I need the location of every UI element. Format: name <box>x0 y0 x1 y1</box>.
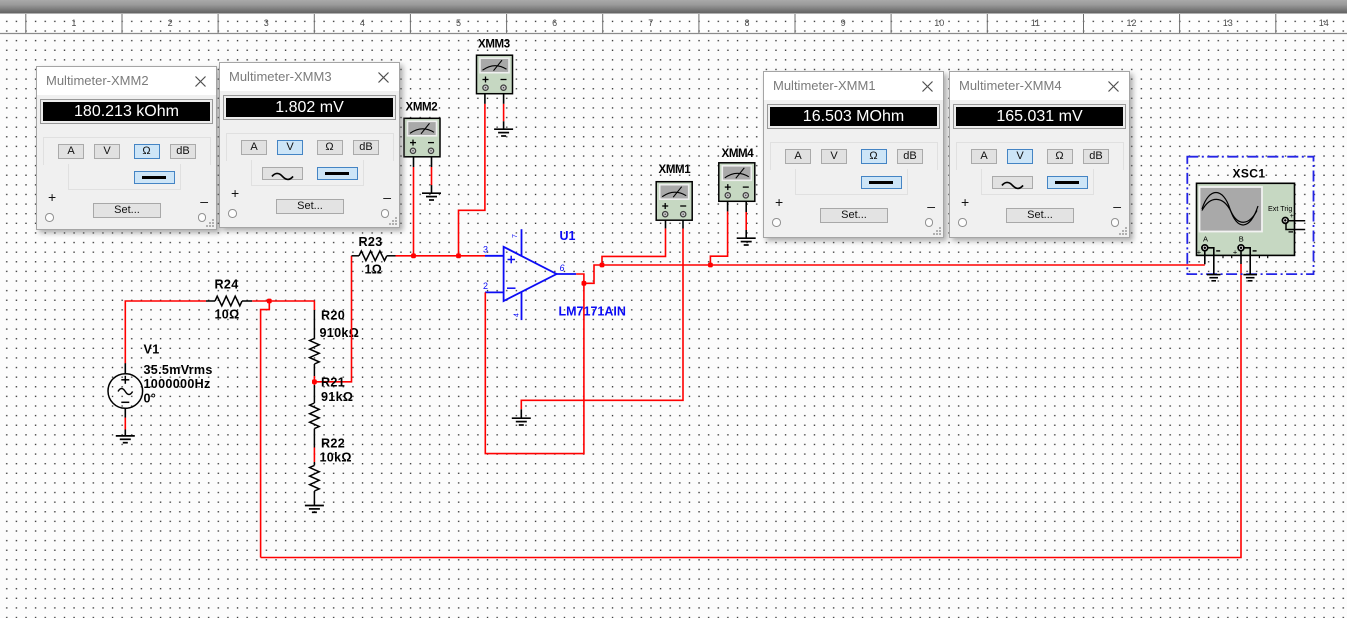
svg-text:7: 7 <box>648 18 653 28</box>
ground below XMM4 <box>737 238 756 245</box>
svg-text:5: 5 <box>456 18 461 28</box>
svg-text:Ext Trig: Ext Trig <box>1268 204 1292 213</box>
resistor R20 body <box>310 338 320 364</box>
voltage source V1 (AC) <box>108 363 143 418</box>
svg-text:12: 12 <box>1126 18 1136 28</box>
ground below XMM2 <box>422 193 441 200</box>
XMM2 minus terminal <box>200 193 208 209</box>
svg-text:910kΩ: 910kΩ <box>320 326 360 340</box>
ground below XMM3 <box>494 129 513 136</box>
svg-text:+: + <box>1290 213 1294 220</box>
R22 value label 10kΩ <box>320 451 352 465</box>
pin number 4 <box>514 313 521 317</box>
XSC1 ext trig terminal <box>1282 218 1288 224</box>
XSC1 Ext Trig text <box>1268 204 1292 213</box>
svg-text:XSC1: XSC1 <box>1233 167 1266 181</box>
XMM2 signal mode buttons <box>134 171 175 185</box>
XSC1 channel A terminal <box>1202 245 1208 251</box>
XMM3 plus terminal <box>231 185 239 201</box>
wire XMM4 minus lead to ground <box>745 201 747 238</box>
ground below XSC1 B minus <box>1243 275 1257 281</box>
wire V1 minus to ground (red segment) <box>124 418 126 430</box>
op-amp plus input marker <box>508 256 516 264</box>
junction node output feedback tap <box>582 281 587 286</box>
XSC1 screen waveform trace B <box>1202 199 1257 222</box>
XMM1 plus terminal <box>775 194 783 210</box>
wire XMM3 plus lead down to input net <box>459 94 485 256</box>
svg-text:1000000Hz: 1000000Hz <box>144 377 211 391</box>
svg-text:2: 2 <box>483 281 488 291</box>
XMM1 instrument icon <box>656 182 692 221</box>
R21 reference label <box>321 376 345 390</box>
svg-text:10: 10 <box>934 18 944 28</box>
XMM3 title bar <box>220 63 399 91</box>
R23 reference label <box>359 235 383 249</box>
XMM2 reading display: 180.213 kOhm <box>41 100 212 123</box>
svg-text:35.5mVrms: 35.5mVrms <box>144 363 213 377</box>
pin number 3 <box>483 245 488 255</box>
XSC1 label <box>1233 167 1266 181</box>
svg-text:10kΩ: 10kΩ <box>320 451 352 465</box>
svg-text:XMM1: XMM1 <box>659 164 692 176</box>
XMM1 reading display: 16.503 MOhm <box>768 105 939 128</box>
svg-text:R23: R23 <box>359 235 383 249</box>
op-amp minus input marker <box>507 287 516 289</box>
XSC1 screen waveform trace A <box>1202 193 1258 225</box>
multimeter panel XMM4 window <box>949 71 1130 238</box>
junction node XMM1 tap <box>600 263 605 268</box>
svg-text:R21: R21 <box>321 376 345 390</box>
junction node XMM3 probe <box>456 253 461 258</box>
pin number 7 <box>512 234 519 238</box>
pin number 6 <box>560 263 565 273</box>
XMM1 minus terminal <box>927 198 935 214</box>
svg-text:7: 7 <box>512 234 519 238</box>
XSC1 B minus bracket lead to ground <box>1244 248 1250 275</box>
resistor R23 leads <box>352 255 396 257</box>
svg-text:10Ω: 10Ω <box>215 308 240 322</box>
XMM4 mode buttons A V Ohm dB <box>971 149 997 164</box>
ground below R22 <box>305 506 324 513</box>
junction node XMM2 probe <box>411 253 416 258</box>
XMM1 plus terminal lead (black) <box>665 220 667 229</box>
XSC1 channel B minus mark <box>1253 250 1257 252</box>
XMM3 icon label <box>478 39 510 51</box>
svg-text:4: 4 <box>514 313 521 317</box>
svg-text:1: 1 <box>71 18 76 28</box>
svg-text:14: 14 <box>1319 18 1329 28</box>
XSC1 A minus bracket lead to ground <box>1208 248 1214 275</box>
R21 value label 91kΩ <box>321 390 353 404</box>
wire XMM2 plus lead down to input net <box>413 157 415 256</box>
XMM4 Set button <box>1006 208 1074 223</box>
wire junction down to bottom feedback rail <box>261 301 270 558</box>
XMM3 mode buttons A V Ohm dB <box>241 140 267 155</box>
op-amp U1 input pin 2 lead <box>485 291 504 293</box>
ruler strip <box>0 14 1347 34</box>
U1 reference label <box>560 229 576 243</box>
op-amp U1 power pin 7 (top) <box>521 229 523 256</box>
XSC1 selection box (dashed blue) <box>1187 157 1313 274</box>
XMM4 instrument icon <box>719 163 755 202</box>
XSC1 ext trig pin stubs <box>1286 221 1305 230</box>
bottom feedback rail wire to XSC1 channel B <box>261 264 1241 558</box>
wire into R20 (red) <box>313 301 315 310</box>
op-amp U1 power pin 4 (bottom) <box>521 292 523 320</box>
XSC1 screen <box>1200 187 1263 232</box>
svg-text:R20: R20 <box>321 309 345 323</box>
XMM3 Set button <box>276 199 344 214</box>
XMM4 minus terminal <box>1113 198 1121 214</box>
svg-text:LM7171AIN: LM7171AIN <box>559 305 626 319</box>
wire R23 to op-amp pin 3 <box>396 255 486 257</box>
wire op-amp output elbow down <box>576 274 584 283</box>
op-amp U1 output pin 6 lead <box>557 273 577 275</box>
wire R21 junction right and up to R23 <box>314 256 351 382</box>
svg-text:+: + <box>1233 247 1238 256</box>
XMM2 mode buttons A V Ohm dB <box>58 144 84 159</box>
wire output junction to main output net <box>584 265 1205 283</box>
resistor R20 leads <box>313 310 315 376</box>
wire stub up to XMM4 plus terminal <box>710 211 727 265</box>
XMM2 instrument icon <box>404 118 440 157</box>
XSC1 channel B terminal <box>1238 245 1244 251</box>
XSC1 ext trig plus mark <box>1290 213 1294 220</box>
svg-text:+: + <box>1197 247 1202 256</box>
op-amp U1 triangle <box>504 247 557 301</box>
XMM4 plus terminal <box>961 194 969 210</box>
wire stub up to XMM1 plus terminal <box>602 228 666 265</box>
resistor R24 leads <box>206 300 252 302</box>
svg-text:4: 4 <box>360 18 365 28</box>
op-amp U1 input pin 3 lead <box>485 255 504 257</box>
XSC1 channel A minus mark <box>1216 250 1220 252</box>
wire R24 to R20 top corner <box>252 300 314 302</box>
XMM2 title bar <box>37 67 216 95</box>
XMM1 icon label <box>659 164 692 176</box>
XMM3 minus terminal <box>383 189 391 205</box>
wire XMM2 minus lead to ground <box>431 157 433 193</box>
XMM1 title bar <box>764 72 943 100</box>
resistor R23 body <box>359 251 387 261</box>
svg-text:XMM2: XMM2 <box>406 102 438 114</box>
svg-text:3: 3 <box>264 18 269 28</box>
svg-text:13: 13 <box>1223 18 1233 28</box>
wire output node down-left feedback loop to pin 2 <box>485 283 584 453</box>
resistor R24 body <box>215 296 242 306</box>
svg-text:R24: R24 <box>215 278 239 292</box>
wire XMM3 minus lead to ground <box>503 94 505 129</box>
multimeter panel XMM1 window <box>763 71 944 238</box>
junction node XMM4 tap <box>708 263 713 268</box>
XSC1 channel A label <box>1203 235 1208 244</box>
XSC1 channel B plus mark <box>1233 247 1238 256</box>
XMM3 reading display: 1.802 mV <box>224 96 395 119</box>
svg-text:R22: R22 <box>321 437 345 451</box>
junction node R21 top <box>312 379 317 384</box>
svg-text:2: 2 <box>168 18 173 28</box>
svg-text:A: A <box>1203 235 1208 244</box>
R20 reference label <box>321 309 345 323</box>
svg-text:B: B <box>1239 235 1244 244</box>
XSC1 body bottom pin ticks <box>1223 255 1268 258</box>
XSC1 A plus lead (black) down to output net <box>1204 251 1206 264</box>
svg-text:6: 6 <box>560 263 565 273</box>
wire V1 plus up to R24 level <box>125 301 206 363</box>
resistor R21 body <box>310 403 320 429</box>
wire R21 to R22 (red) <box>313 448 315 463</box>
XMM2 icon label <box>406 102 438 114</box>
XMM1 minus terminal lead (black) <box>682 220 684 229</box>
svg-text:6: 6 <box>552 18 557 28</box>
svg-text:XMM3: XMM3 <box>478 39 510 51</box>
svg-text:9: 9 <box>841 18 846 28</box>
multimeter panel XMM2 window <box>36 66 217 230</box>
R24 value label 10Ω <box>215 308 240 322</box>
XMM3 signal mode buttons <box>262 167 303 181</box>
XSC1 channel B label <box>1239 235 1244 244</box>
XMM1 Set button <box>820 208 888 223</box>
XMM4 reading display: 165.031 mV <box>954 105 1125 128</box>
pin number 2 <box>483 281 488 291</box>
wire R20 to R21 (red) <box>313 376 315 385</box>
XSC1 ext trig minus mark <box>1289 231 1294 233</box>
resistor R21 leads <box>313 385 315 448</box>
XMM2 plus terminal <box>48 189 56 205</box>
R20 value label 910kΩ <box>320 326 360 340</box>
XMM3 instrument icon <box>477 55 513 93</box>
ground below V1 <box>116 430 135 443</box>
XMM1 mode buttons A V Ohm dB <box>785 149 811 164</box>
svg-text:0°: 0° <box>144 391 157 405</box>
oscilloscope XSC1 body <box>1197 183 1295 255</box>
XMM4 plus terminal lead (black) <box>727 202 729 212</box>
ground for XMM1 minus net <box>512 409 531 425</box>
XMM4 icon label <box>722 148 755 160</box>
wire XMM1 minus terminal down to ground net <box>521 229 683 410</box>
XMM2 Set button <box>93 203 161 218</box>
junction node at R24 output <box>267 299 272 304</box>
U1 part label LM7171AIN <box>559 305 626 319</box>
svg-text:8: 8 <box>744 18 749 28</box>
resistor R22 leads <box>313 462 315 505</box>
svg-text:1Ω: 1Ω <box>365 263 383 277</box>
multimeter panel XMM3 window <box>219 62 400 228</box>
svg-text:11: 11 <box>1031 18 1040 28</box>
resistor R22 body <box>310 465 320 491</box>
XMM4 signal mode buttons <box>992 176 1033 190</box>
V1 labels (V1 / 35.5mVrms / 1000000Hz / 0°) <box>144 343 213 406</box>
XSC1 channel A plus mark <box>1197 247 1202 256</box>
svg-text:XMM4: XMM4 <box>722 148 755 160</box>
ground below XSC1 A minus <box>1207 275 1221 281</box>
R22 reference label <box>321 437 345 451</box>
R24 reference label <box>215 278 239 292</box>
svg-text:U1: U1 <box>560 229 576 243</box>
svg-text:V1: V1 <box>144 343 160 357</box>
svg-text:3: 3 <box>483 245 488 255</box>
R23 value label 1Ω <box>365 263 383 277</box>
XSC1 B plus lead (black) to feedback rail <box>1240 251 1242 264</box>
top gray gradient bar <box>0 0 1347 14</box>
XMM4 title bar <box>950 72 1129 100</box>
svg-text:91kΩ: 91kΩ <box>321 390 353 404</box>
XMM1 signal mode buttons <box>861 176 902 190</box>
